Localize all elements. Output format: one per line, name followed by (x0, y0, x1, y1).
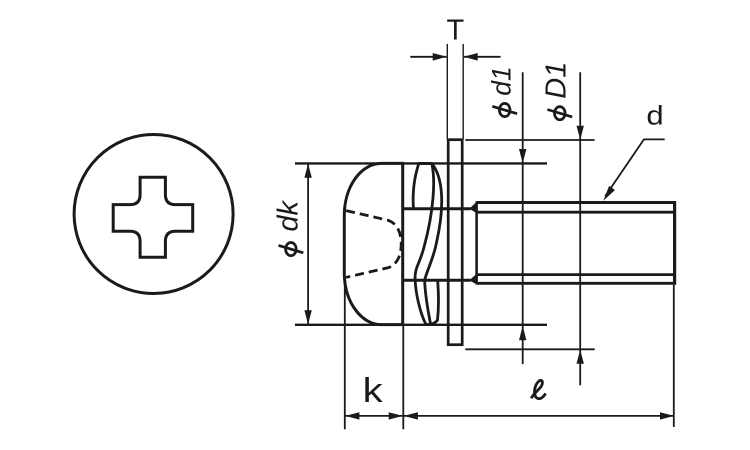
washer bottom extension right (465, 348, 594, 350)
label phi d1 (486, 66, 516, 95)
extension line at head/washer top (y=163.4) (295, 162, 547, 164)
phi symbol of D1 (547, 107, 572, 120)
shank bottom line (403, 279, 471, 282)
phi symbol of dk (279, 243, 304, 256)
pan head outline (344, 163, 402, 324)
chamfer wedge bottom (470, 274, 477, 284)
T extension line left (446, 44, 448, 139)
phi-d1 dimension line (522, 72, 524, 364)
T dimension line right with arrow (464, 56, 501, 58)
phi-D1 dimension line (579, 72, 581, 385)
spring washer back-top curve (413, 164, 418, 208)
thread minor diameter bottom (477, 273, 674, 276)
d leader line (605, 139, 665, 196)
thread end face (673, 201, 676, 285)
svg-text:D1: D1 (541, 62, 573, 99)
phi symbol of d1 (492, 103, 517, 116)
thread major diameter bottom (477, 282, 676, 285)
shank top line (403, 207, 471, 210)
k extension line (head left) (344, 284, 346, 429)
label phi D1 (541, 62, 573, 99)
phi-dk dimension line (307, 163, 309, 324)
T dimension line left with arrow (410, 56, 446, 58)
phillips recess cross (113, 177, 193, 257)
thread minor diameter top (477, 211, 674, 214)
k dimension line (345, 415, 404, 417)
thread major diameter top (477, 201, 676, 204)
chamfer wedge top (470, 202, 477, 213)
svg-text:d: d (646, 102, 663, 132)
spring washer front band left edge (415, 164, 434, 324)
svg-text:k: k (363, 371, 383, 409)
flat washer (448, 140, 462, 345)
label l (script ell) (531, 380, 545, 398)
head top view circle (74, 135, 233, 294)
spring washer bottom cap (426, 320, 438, 325)
extension line at head/washer bottom (y=324.8) (295, 324, 547, 326)
spring washer top cap (418, 162, 432, 165)
label phi dk (273, 199, 305, 231)
phillips recess depth (dashed) (346, 211, 401, 278)
spring washer front band right edge (425, 164, 442, 324)
k/l shared extension line (head face) (402, 325, 404, 429)
svg-text:d1: d1 (486, 66, 516, 95)
svg-text:T: T (446, 15, 464, 47)
T extension line right (462, 44, 464, 139)
l extension line (thread end) (673, 285, 675, 427)
thread start vertical (475, 201, 478, 284)
washer top extension right (465, 139, 594, 141)
l dimension line (403, 415, 674, 417)
spring washer back-bottom curve (436, 281, 440, 320)
svg-text:dk: dk (273, 199, 305, 231)
